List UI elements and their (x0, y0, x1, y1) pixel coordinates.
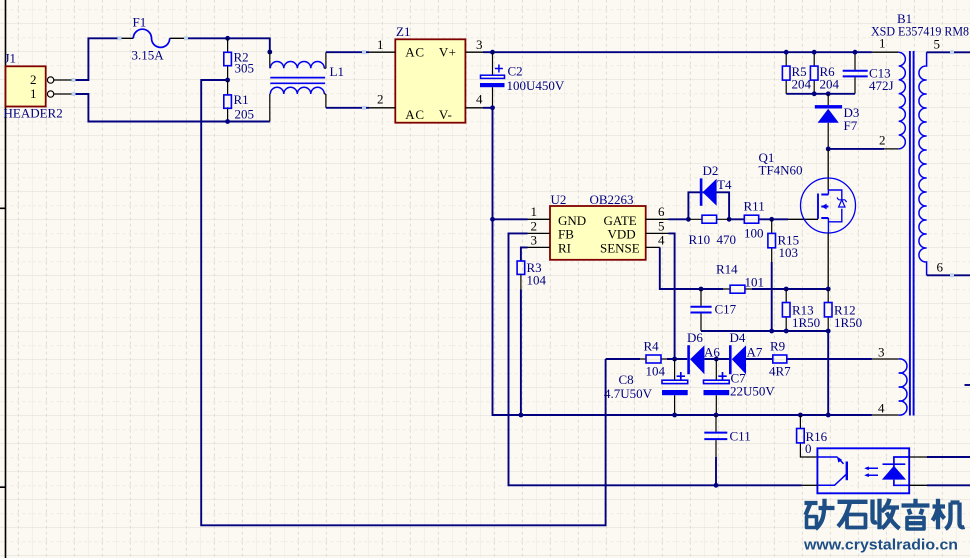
junction C8 bottom (672, 413, 677, 418)
svg-text:F1: F1 (133, 15, 147, 30)
resistor R15 (768, 219, 799, 262)
wire R3 to ground rail (520, 290, 522, 416)
svg-text:AC: AC (405, 107, 424, 122)
svg-text:1: 1 (531, 204, 538, 219)
svg-text:R14: R14 (716, 262, 738, 277)
svg-text:104: 104 (646, 364, 666, 379)
svg-text:5: 5 (934, 37, 941, 52)
svg-text:1R50: 1R50 (792, 315, 820, 330)
junction R6 bottom (812, 91, 817, 96)
junction R3 bottom (519, 413, 524, 418)
junction Q1 drain (826, 147, 831, 152)
wire end hotspots (72, 36, 955, 277)
wire fuse to L1 (186, 38, 270, 52)
wire ground rail (521, 414, 872, 416)
svg-text:C8: C8 (619, 372, 634, 387)
wire J1 pin1 to bottom rail (74, 94, 270, 122)
svg-text:3: 3 (531, 233, 538, 248)
junction R5 top (784, 50, 789, 55)
svg-text:204: 204 (820, 77, 840, 92)
svg-text:RI: RI (558, 240, 571, 255)
svg-text:C17: C17 (715, 302, 737, 317)
diode D2 (700, 163, 732, 206)
watermark logo text (805, 499, 965, 530)
wire SENSE net (660, 247, 828, 289)
svg-text:3: 3 (476, 37, 483, 52)
svg-text:101: 101 (745, 275, 765, 290)
junction D2 right (727, 217, 732, 222)
junction D3 top (826, 91, 831, 96)
svg-text:2: 2 (531, 218, 538, 233)
svg-text:SENSE: SENSE (600, 240, 640, 255)
transistor Q1 (759, 149, 856, 289)
junction D2 left (686, 217, 691, 222)
wire L1 to Z1 pin1 (326, 51, 369, 53)
svg-text:305: 305 (235, 61, 255, 76)
inductor L1 common-mode choke (270, 52, 344, 122)
svg-text:2: 2 (377, 92, 384, 107)
diode D3 (815, 94, 860, 149)
junction R1R2 mid (225, 78, 230, 83)
wire L1 to Z1 pin2 (326, 107, 369, 109)
svg-text:C11: C11 (730, 429, 751, 444)
junction C17 top (699, 287, 704, 292)
svg-text:T4: T4 (717, 177, 732, 192)
wire GND pin to ground vertical (493, 218, 528, 220)
junction R1 bottom (225, 119, 230, 124)
wire C11 to FB line (715, 457, 717, 485)
wire D2 branch (688, 192, 729, 219)
resistor R13 (782, 289, 820, 331)
svg-text:D4: D4 (730, 330, 746, 345)
junction R15 top (769, 217, 774, 222)
svg-text:104: 104 (527, 273, 547, 288)
svg-text:R10: R10 (689, 232, 711, 247)
svg-text:6: 6 (658, 204, 665, 219)
capacitor C11 (704, 415, 750, 457)
junction Q1 source (826, 287, 831, 292)
svg-text:3.15A: 3.15A (132, 48, 165, 63)
wire R1R2 mid to left vertical (201, 80, 605, 525)
junction C11 bottom (714, 483, 719, 488)
wire B1 pin6 off right (947, 274, 970, 276)
IC U2 OB2263 (528, 192, 669, 260)
capacitor C7 (704, 359, 776, 415)
junction R16 top (798, 413, 803, 418)
svg-text:C2: C2 (508, 64, 523, 79)
wire R15 to line B (771, 262, 773, 331)
wire opto top right off edge (927, 456, 970, 458)
svg-text:L1: L1 (330, 64, 344, 79)
junction C7 top (714, 357, 719, 362)
optocoupler U3 (802, 448, 928, 493)
svg-text:R1: R1 (234, 92, 249, 107)
junction R15 bottom (769, 329, 774, 334)
svg-text:XSD E357419 RM8: XSD E357419 RM8 (871, 24, 969, 39)
svg-text:2: 2 (30, 72, 37, 87)
svg-text:470: 470 (717, 232, 737, 247)
resistor R11 (744, 199, 765, 241)
sheet border (0, 0, 6, 558)
bridge rectifier Z1 (369, 24, 483, 123)
junction C8 top (672, 357, 677, 362)
resistor R9 (769, 339, 791, 379)
transformer B1 (871, 11, 969, 416)
resistor R2 (224, 38, 254, 80)
wire primary ground vertical (493, 108, 521, 415)
capacitor C13 (843, 52, 894, 94)
junction R13 top (784, 287, 789, 292)
svg-text:TF4N60: TF4N60 (759, 163, 803, 178)
resistor R6 (810, 52, 839, 94)
svg-text:3: 3 (878, 345, 885, 360)
svg-text:2: 2 (879, 133, 886, 148)
svg-text:4R7: 4R7 (769, 364, 791, 379)
resistor R1 (224, 80, 254, 122)
wire B1 pin5 off right (947, 51, 970, 53)
svg-text:OB2263: OB2263 (590, 192, 634, 207)
svg-text:V-: V- (439, 107, 452, 122)
svg-text:1R50: 1R50 (834, 315, 862, 330)
resistor R16 (797, 415, 828, 457)
wire opto bottom right off edge (927, 484, 970, 486)
junction R12 bottom (826, 329, 831, 334)
svg-text:205: 205 (235, 107, 255, 122)
wire Z1 pin4 to C2 bottom (483, 107, 493, 109)
junction R6 top (812, 50, 817, 55)
diode D4 (729, 330, 763, 374)
junction C2 bottom (490, 105, 495, 110)
wire FB net (509, 233, 802, 485)
wire line B (701, 330, 828, 332)
capacitor C2 (480, 52, 565, 108)
wire snubber bottom (786, 93, 855, 95)
svg-text:1: 1 (30, 86, 37, 101)
diode D6 (687, 330, 720, 374)
svg-text:Z1: Z1 (396, 24, 410, 39)
svg-text:472J: 472J (869, 78, 894, 93)
svg-text:HEADER2: HEADER2 (4, 106, 63, 121)
capacitor C17 (690, 289, 736, 331)
svg-text:F7: F7 (844, 118, 858, 133)
svg-text:V+: V+ (439, 45, 457, 60)
resistor R3 (517, 260, 546, 290)
svg-text:100U450V: 100U450V (507, 78, 565, 93)
svg-text:100: 100 (744, 226, 764, 241)
svg-text:1: 1 (377, 37, 384, 52)
svg-text:A7: A7 (747, 345, 763, 360)
resistor R14 (716, 262, 764, 294)
svg-text:AC: AC (405, 45, 424, 60)
junction C13 top (853, 50, 858, 55)
wire R12 to ground rail (827, 331, 829, 415)
node tick right edge (965, 384, 970, 386)
svg-text:4: 4 (658, 233, 665, 248)
connector J1 (4, 51, 74, 121)
fuse F1 (120, 15, 186, 63)
svg-text:4: 4 (476, 92, 483, 107)
resistor R12 (824, 289, 862, 331)
junction U2 GND pin (490, 217, 495, 222)
svg-text:6: 6 (937, 260, 944, 275)
resistor R5 (782, 52, 811, 94)
svg-text:204: 204 (792, 77, 812, 92)
svg-text:R9: R9 (770, 339, 785, 354)
resistor R4 (640, 339, 667, 379)
svg-text:22U50V: 22U50V (730, 384, 775, 399)
svg-text:R11: R11 (744, 199, 765, 214)
resistor R10 (688, 215, 736, 247)
junction R12 rail (826, 413, 831, 418)
wire D3 to B1 pin2 (828, 148, 884, 150)
junction R13 bottom (784, 329, 789, 334)
wire VDD supply line (606, 358, 872, 360)
wire HV+ rail (483, 51, 872, 53)
svg-text:R4: R4 (644, 339, 660, 354)
svg-text:4: 4 (878, 401, 885, 416)
junction C7 bottom (714, 413, 719, 418)
svg-text:5: 5 (658, 218, 665, 233)
svg-text:1: 1 (879, 36, 886, 51)
svg-text:4.7U50V: 4.7U50V (604, 386, 653, 401)
junction C2 top (490, 50, 495, 55)
wire RI to R3 (521, 247, 528, 261)
capacitor C8 (604, 359, 688, 415)
svg-text:J1: J1 (5, 51, 17, 66)
svg-text:103: 103 (779, 245, 799, 260)
svg-text:D2: D2 (703, 163, 719, 178)
wire GATE net (669, 218, 789, 220)
svg-text:0: 0 (805, 441, 812, 456)
wire VDD pin to supply line (669, 233, 675, 359)
wire J1 pin2 to fuse (74, 38, 120, 80)
junction fuse/R2 (225, 36, 230, 41)
junction L1 pin (267, 50, 272, 55)
svg-text:www.crystalradio.cn: www.crystalradio.cn (803, 538, 958, 554)
svg-text:D6: D6 (687, 330, 703, 345)
svg-text:U2: U2 (551, 192, 567, 207)
